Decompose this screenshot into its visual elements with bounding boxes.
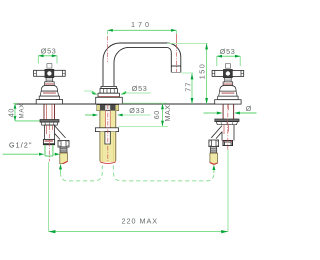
right hose dashed — [113, 165, 213, 181]
spout riser axis — [107, 36, 109, 62]
dimension 77 — [182, 73, 194, 104]
center axis — [107, 105, 109, 163]
label D53 spout base — [84, 84, 151, 95]
dimension 170 — [108, 20, 177, 43]
right handle bonnet body — [215, 78, 241, 104]
svg-text:60: 60 — [152, 110, 161, 119]
svg-text:G1/2": G1/2" — [9, 142, 33, 149]
dimension 40 MAX — [6, 103, 40, 121]
svg-text:Ø53: Ø53 — [41, 47, 57, 56]
svg-text:170: 170 — [131, 20, 152, 29]
dimension 220 MAX — [49, 150, 228, 234]
center bore slot — [105, 132, 110, 144]
center threaded shank — [100, 111, 106, 128]
svg-text:Ø: Ø — [246, 104, 252, 113]
label D53 left handle — [38, 47, 57, 64]
left valve branch — [55, 126, 66, 140]
right hose arrow — [212, 165, 215, 173]
right valve shank — [223, 104, 234, 119]
left hose dashed — [61, 165, 103, 181]
right branch hex — [209, 140, 219, 147]
center washer — [95, 128, 118, 132]
svg-text:40: 40 — [6, 108, 15, 117]
left hose arrow — [59, 164, 62, 173]
center lower shank — [100, 132, 116, 162]
left valve body tube — [45, 125, 55, 139]
svg-text:77: 77 — [183, 81, 192, 91]
spout base hex — [96, 86, 123, 104]
svg-text:MAX: MAX — [19, 103, 26, 119]
right valve mounting flange — [215, 119, 239, 125]
label D53 right handle — [217, 47, 240, 66]
left valve mounting nut — [40, 120, 59, 126]
svg-text:MAX: MAX — [163, 104, 172, 121]
svg-text:150: 150 — [198, 63, 207, 80]
left handle bonnet body — [36, 78, 62, 104]
spout outlet axis — [175, 44, 177, 72]
right valve branch — [211, 126, 222, 139]
dimension 60 MAX — [119, 103, 173, 126]
left branch ribbed neck — [60, 147, 67, 153]
svg-text:Ø33: Ø33 — [129, 106, 145, 115]
spout tube — [103, 43, 181, 87]
left valve G1/2 ring — [43, 139, 54, 144]
center threaded tip — [100, 162, 116, 164]
svg-text:Ø53: Ø53 — [132, 84, 148, 93]
left valve shank — [44, 104, 55, 119]
left valve axis — [48, 126, 50, 162]
right yellow tailpiece — [210, 153, 218, 164]
right valve axis — [227, 105, 229, 150]
right valve G1/2 ring — [223, 141, 233, 146]
right valve body tube — [222, 125, 234, 141]
left handle cross handle — [34, 64, 66, 78]
right handle cross handle — [212, 64, 244, 78]
label D right shank — [204, 104, 257, 115]
left valve threaded tail — [45, 145, 53, 156]
center shank below deck — [95, 105, 118, 164]
G 1/2 label — [3, 142, 60, 155]
svg-text:Ø53: Ø53 — [220, 47, 236, 56]
svg-text:220 MAX: 220 MAX — [122, 217, 159, 226]
left branch hex — [58, 140, 69, 147]
dimension 150 — [167, 43, 208, 104]
right branch ribbed neck — [210, 147, 216, 154]
center lock nut — [97, 105, 119, 111]
left yellow tailpiece — [60, 153, 68, 164]
deck line — [16, 103, 240, 105]
label D33 center shank — [85, 106, 151, 116]
